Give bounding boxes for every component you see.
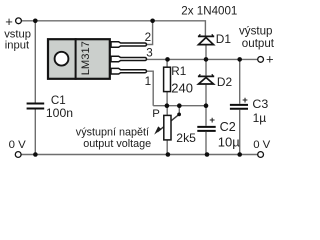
svg-text:1µ: 1µ (253, 111, 267, 125)
svg-text:P: P (152, 108, 160, 120)
svg-text:C3: C3 (252, 97, 268, 111)
svg-text:3: 3 (146, 47, 153, 60)
svg-text:+: + (242, 95, 248, 106)
svg-text:výstupní napětí: výstupní napětí (76, 127, 149, 139)
svg-text:input: input (5, 40, 30, 52)
svg-text:D2: D2 (217, 75, 233, 89)
svg-text:0 V: 0 V (253, 139, 270, 151)
svg-text:vstup: vstup (4, 28, 31, 40)
svg-text:C1: C1 (51, 94, 66, 107)
svg-text:LM317: LM317 (80, 41, 92, 75)
svg-text:240: 240 (171, 81, 193, 96)
svg-text:C2: C2 (220, 120, 236, 134)
svg-text:0 V: 0 V (9, 139, 26, 151)
svg-text:2: 2 (145, 31, 152, 44)
svg-text:1: 1 (145, 75, 152, 88)
svg-text:2k5: 2k5 (176, 131, 196, 145)
svg-text:100n: 100n (46, 106, 73, 120)
svg-text:+: + (209, 115, 215, 126)
svg-text:2x 1N4001: 2x 1N4001 (181, 5, 237, 18)
svg-text:output: output (242, 37, 275, 50)
svg-text:R1: R1 (171, 65, 186, 78)
svg-text:D1: D1 (216, 32, 232, 46)
svg-text:výstup: výstup (239, 24, 273, 37)
svg-text:+: + (266, 52, 274, 67)
svg-text:+: + (5, 14, 13, 29)
svg-text:output voltage: output voltage (83, 138, 151, 150)
svg-text:10µ: 10µ (218, 134, 240, 149)
